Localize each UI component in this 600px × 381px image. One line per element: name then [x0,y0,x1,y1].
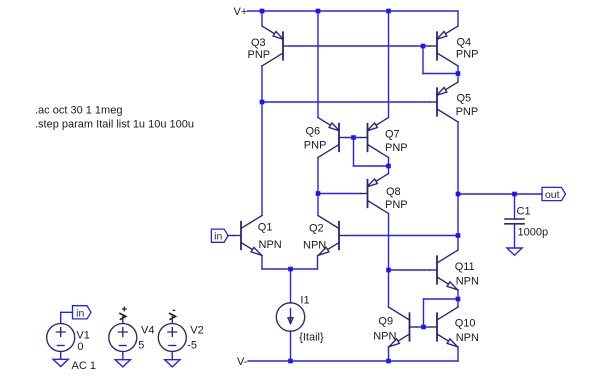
svg-text:PNP: PNP [385,199,408,211]
svg-text:PNP: PNP [456,106,479,118]
wire V2 to ground [171,352,173,360]
wire Q11 emitter node across [424,298,459,300]
junction at 458,73.5 [456,71,461,76]
junction at 353.5,137.5 [351,135,356,140]
junction at 290.5,361 [288,359,293,364]
ground under C1 [507,248,522,255]
svg-text:PNP: PNP [385,142,408,154]
svg-text:in: in [76,307,84,319]
junction at 458,194 [456,192,461,197]
port in at Q1 base [211,229,228,243]
wire out node across [458,193,542,195]
junction at 423,46 [421,44,426,49]
wire V+ top rail [248,10,459,12]
svg-text:AC 1: AC 1 [72,360,96,372]
wire V1 to in port [61,312,73,323]
junction at 458,299 [456,297,461,302]
svg-text:V2: V2 [190,325,203,337]
svg-text:in: in [214,231,222,243]
svg-text:NPN: NPN [303,239,326,251]
wire Q9 base to Q10 base [417,326,431,328]
wire Q6 base to Q7 base [346,137,361,139]
wire V1 to ground [60,352,62,360]
wire Q4 base feedback down [422,46,424,74]
ground under V4 [115,360,130,367]
junction at 388.5,270 [386,268,391,273]
wire base node to Q7 collector node [354,165,389,167]
wire Q3 collector / Q1 collector column [261,66,263,216]
svg-text:PNP: PNP [304,140,327,152]
svg-text:V4: V4 [141,325,154,337]
junction at 423.5,327 [421,325,426,330]
transistor Q11 (NPN) [430,250,458,290]
wire Q7 emitter column [388,11,390,118]
transistor Q3 (PNP) [262,26,290,66]
wire Q3 emitter to V+ rail [261,11,263,26]
wire Q8 collector / Q9 collector column [388,214,390,308]
junction at 318,11 [316,9,321,14]
svg-text:Q2: Q2 [309,223,324,235]
svg-text:Q9: Q9 [378,316,393,328]
wire Q2 emitter down [317,256,319,270]
svg-text:NPN: NPN [456,332,479,344]
wire in port to Q1 base [228,235,234,237]
svg-text:1000p: 1000p [518,226,549,238]
svg-text:Q3: Q3 [251,37,266,49]
svg-text:C1: C1 [517,205,531,217]
wire V- bottom rail [248,360,458,362]
net flag + above V4 [119,307,126,320]
wire Q6 collector to Q2 collector [317,158,319,216]
wire tail node to I1 [290,269,292,303]
wire Q4 collector to node [457,66,459,74]
wire Q5 collector / out column [457,122,459,250]
voltage source V1 [47,324,75,352]
transistor Q10 (NPN) [430,307,458,347]
wire Q10 emitter to V- rail [457,347,459,361]
svg-text:Q7: Q7 [385,129,400,141]
junction at 458,235.5 [456,233,461,238]
wire C1 top [514,194,516,219]
svg-text:Q1: Q1 [258,221,273,233]
wire Q4 base feedback across [423,73,458,75]
wire Q8 base to Q6 collector column [318,193,361,195]
svg-text:{Itail}: {Itail} [299,331,324,343]
net flag - above V2 [169,310,176,319]
svg-text:PNP: PNP [248,49,271,61]
junction at 388.5,166 [386,164,391,169]
wire Q9 emitter to V- rail [388,347,390,361]
svg-text:Q6: Q6 [306,126,321,138]
junction at 388.5,361 [386,359,391,364]
wire Q1 emitter to tail [262,268,291,270]
transistor Q6 (PNP) [318,118,346,158]
svg-text:Q4: Q4 [457,37,472,49]
junction at 514.5,194 [512,192,517,197]
wire Q11 base [389,269,431,271]
wire V+ rail to Q4 emitter [457,11,459,26]
ground under V1 [53,359,68,366]
wire Q2 base to out column [346,235,458,237]
svg-text:V+: V+ [234,6,248,18]
wire Q7 collector to Q8 emitter [388,158,390,174]
wire V4 to ground [122,352,124,360]
svg-text:I1: I1 [300,295,309,307]
svg-text:V-: V- [237,356,248,368]
svg-text:Q10: Q10 [455,318,476,330]
voltage source V2 [158,324,186,352]
svg-text:0: 0 [77,341,83,353]
svg-text:.ac oct 30 1 1meg: .ac oct 30 1 1meg [35,105,122,117]
junction at 290.5,269 [288,267,293,272]
junction at 318,193.5 [316,191,321,196]
wire Q2 emitter to tail [291,268,318,270]
svg-text:Q8: Q8 [386,186,401,198]
svg-text:Q5: Q5 [457,93,472,105]
wire V2 top stub [171,317,173,324]
svg-text:-5: -5 [187,340,197,352]
svg-text:PNP: PNP [456,49,479,61]
wire Q5 base rail from Q3 collector [262,101,430,103]
transistor Q9 (NPN) [389,307,417,347]
svg-text:NPN: NPN [373,330,396,342]
svg-text:NPN: NPN [259,239,282,251]
current source I1 [276,303,304,331]
transistor Q4 (PNP) [430,26,458,66]
wire C1 bottom to ground [514,224,516,248]
svg-text:out: out [545,189,560,201]
wire Q6 emitter column [317,11,319,118]
wire Q11 emitter down [457,290,459,299]
wire Q10 collector up [457,299,459,307]
wire Q5 emitter stub [457,74,459,83]
junction at 262,11 [260,9,265,14]
junction at 262,102 [260,100,265,105]
capacitor C1 [505,219,524,224]
transistor Q7 (PNP) [361,118,389,158]
ground under V2 [165,360,180,367]
svg-text:NPN: NPN [456,275,479,287]
transistor Q8 (PNP) [361,174,389,214]
port out [542,187,566,201]
wire down to Q9/Q10 base [423,299,425,327]
junction at 388.5,11 [386,9,391,14]
transistor Q2 (NPN) [318,216,346,256]
transistor Q1 (NPN) [234,216,262,256]
transistor Q5 (PNP) [430,82,458,122]
wire V4 top stub [122,317,124,324]
svg-text:.step param Itail list 1u 10u: .step param Itail list 1u 10u 100u [35,119,194,131]
svg-text:Q11: Q11 [455,261,475,273]
wire Q3 base to Q4 base rail [290,45,430,47]
svg-text:5: 5 [138,340,144,352]
port in at V1 [73,306,92,320]
svg-text:V1: V1 [76,329,89,341]
voltage source V4 [109,324,137,352]
wire Q6/Q7 base down [353,138,355,167]
wire Q1 emitter down [261,256,263,270]
wire I1 to V- rail [290,331,292,361]
